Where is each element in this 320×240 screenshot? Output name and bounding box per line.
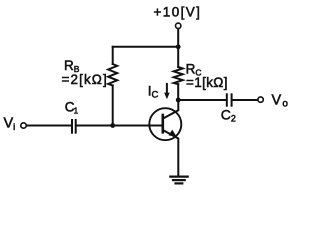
svg-text:+10[V]: +10[V] (154, 5, 202, 20)
svg-text:=1[kΩ]: =1[kΩ] (186, 75, 228, 90)
svg-text:=2[kΩ]: =2[kΩ] (62, 72, 108, 87)
